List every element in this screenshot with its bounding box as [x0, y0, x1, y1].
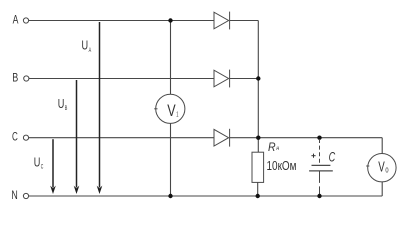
svg-text:B: B — [12, 71, 18, 85]
wire neutral N — [29, 195, 383, 197]
wire V1 branch top — [170, 21, 172, 95]
svg-text:U: U — [58, 96, 65, 111]
junction bus / diode VD2 — [256, 76, 260, 80]
junction bus / diode VD3 — [256, 136, 260, 140]
svg-text:N: N — [11, 188, 17, 202]
wire phase C — [29, 137, 214, 139]
diode VD3 — [214, 129, 230, 147]
diode VD1 — [214, 12, 230, 30]
junction resistor / N — [256, 194, 260, 198]
terminal C — [23, 135, 28, 140]
junction capacitor / N — [317, 194, 321, 198]
junction node N / V1 — [168, 194, 172, 198]
wire diode VD1 to bus — [230, 20, 259, 22]
svg-text:V: V — [378, 159, 385, 175]
wire capacitor bottom (dashed) — [319, 171, 321, 195]
svg-text:0: 0 — [385, 168, 388, 175]
wire phase B — [29, 78, 214, 80]
value label Uc — [34, 154, 44, 170]
svg-text:10кОм: 10кОм — [267, 158, 297, 173]
value label Ua — [82, 38, 92, 54]
wire capacitor top (dashed) — [319, 139, 321, 165]
voltage arrow Ub — [74, 80, 80, 194]
polarity mark + — [311, 154, 315, 158]
resistor Rn — [252, 152, 264, 182]
capacitor C plates — [309, 165, 333, 171]
svg-text:V: V — [167, 101, 176, 120]
wire V0 branch bottom — [381, 182, 383, 196]
svg-text:C: C — [329, 150, 336, 165]
voltmeter V0 — [366, 154, 396, 182]
svg-text:A: A — [89, 47, 92, 54]
voltmeter V1 — [154, 94, 185, 123]
label Rn — [268, 142, 280, 154]
svg-text:R: R — [268, 142, 276, 154]
voltage arrow Uc — [50, 139, 56, 194]
junction node line A / V1 — [168, 18, 172, 22]
junction load rail / capacitor — [317, 136, 321, 140]
wire V1 branch bottom — [170, 123, 172, 196]
svg-text:A: A — [13, 13, 19, 27]
svg-text:U: U — [34, 154, 41, 169]
terminal N — [23, 193, 28, 198]
terminal B — [24, 76, 29, 81]
wire diode VD3 to load rail — [230, 137, 383, 139]
wire rectifier bus vertical — [257, 21, 259, 153]
svg-text:U: U — [82, 38, 89, 53]
wire diode VD2 to bus — [230, 78, 259, 80]
svg-text:C: C — [41, 164, 44, 171]
value label Ub — [58, 96, 68, 112]
svg-text:C: C — [12, 130, 18, 144]
voltage arrow Ua — [97, 22, 103, 194]
wire resistor to N — [257, 182, 259, 196]
diode VD2 — [214, 70, 230, 88]
svg-text:1: 1 — [176, 110, 178, 119]
wire phase A — [29, 20, 214, 22]
wire V0 branch top — [381, 138, 383, 154]
svg-text:B: B — [65, 105, 68, 112]
terminal A — [23, 18, 28, 23]
